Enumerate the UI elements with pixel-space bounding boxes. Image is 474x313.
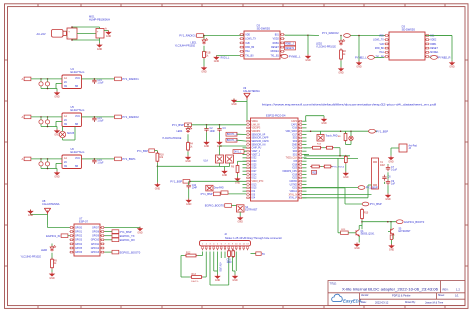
wire (426, 35, 453, 37)
wire (56, 120, 62, 122)
port EGPIO1_TX (112, 234, 135, 238)
svg-text:GND: GND (449, 66, 455, 69)
label U5 (71, 105, 85, 112)
LED LED6 (50, 245, 56, 251)
wire opto output (82, 158, 95, 160)
port port PY1_RADIO2 (344, 34, 351, 38)
svg-text:RDB1_J: RDB1_J (285, 44, 293, 46)
svg-text:SENSOR_VP: SENSOR_VP (252, 134, 266, 136)
wire xtal_n (302, 193, 371, 195)
svg-text:PY1_RADIO2: PY1_RADIO2 (322, 31, 339, 35)
svg-text:E1TRANST: E1TRANST (245, 209, 258, 212)
svg-text:LOW1_TX: LOW1_TX (373, 40, 384, 42)
wire (220, 254, 222, 258)
svg-text:IO26: IO26 (252, 168, 258, 170)
svg-text:GND: GND (338, 72, 344, 75)
wire (387, 185, 389, 193)
svg-text:PY1_RADIO2: PY1_RADIO2 (122, 115, 139, 119)
wire (224, 252, 226, 255)
svg-text:PYNB2_R: PYNB2_R (438, 56, 450, 60)
wire (302, 180, 306, 182)
svg-text:PY1_BSP: PY1_BSP (137, 150, 148, 153)
wire (338, 232, 341, 234)
svg-text:B01: B01 (275, 34, 280, 36)
svg-text:GND: GND (231, 103, 237, 106)
ground (215, 275, 221, 283)
wire opto input (31, 116, 62, 118)
ground (385, 194, 391, 202)
wire junction (94, 116, 96, 118)
capacitor C6 (92, 116, 104, 122)
svg-text:YLCGHG-PR101E: YLCGHG-PR101E (316, 45, 336, 48)
wire (358, 226, 360, 230)
svg-text:A: A (22, 115, 24, 119)
wire (99, 40, 101, 43)
wire (302, 190, 306, 192)
wire (234, 101, 247, 103)
ground (238, 216, 244, 224)
svg-text:GND: GND (389, 249, 395, 252)
svg-text:VDD3P3: VDD3P3 (252, 128, 262, 130)
svg-text:EL3H7TA-G: EL3H7TA-G (71, 70, 85, 74)
wire (219, 163, 221, 167)
wire (105, 251, 113, 253)
net label BOOT1_L (226, 138, 238, 142)
wire junction (339, 155, 341, 157)
wire (51, 269, 53, 272)
port port PYNB1_L (281, 55, 301, 59)
ground (305, 55, 311, 63)
resistor R15 (311, 146, 322, 149)
ground (231, 99, 237, 107)
capacitor C10 (187, 183, 198, 189)
switch S1 (216, 155, 224, 163)
wire (387, 172, 389, 179)
wire (55, 83, 57, 88)
capacitor C7 (386, 165, 398, 171)
svg-text:IO19: IO19 (292, 174, 298, 176)
svg-text:CALANTENNA: CALANTENNA (243, 90, 260, 93)
wire junction (94, 78, 96, 80)
wire (302, 144, 306, 146)
wire junction (40, 158, 42, 160)
svg-text:IO13: IO13 (252, 184, 258, 186)
svg-text:R13: R13 (192, 273, 197, 276)
svg-text:LOW1_TX: LOW1_TX (245, 39, 256, 41)
svg-text:GND: GND (54, 176, 60, 179)
wire (243, 157, 247, 159)
svg-text:GND: GND (97, 48, 103, 51)
svg-text:TXD0_CLK: TXD0_CLK (286, 158, 298, 160)
wire (302, 193, 306, 195)
wire (243, 190, 247, 192)
wire junction (40, 116, 42, 118)
svg-text:VDD: VDD (245, 34, 250, 36)
svg-text:1uF: 1uF (391, 183, 396, 186)
wire (220, 252, 222, 255)
wire (228, 254, 230, 285)
wire (65, 30, 68, 32)
svg-text:VDD3P3: VDD3P3 (252, 131, 262, 133)
svg-text:EL3H7TA-G: EL3H7TA-G (71, 150, 85, 154)
oscillator U10 32k (317, 135, 324, 142)
wire (243, 163, 247, 165)
svg-text:GND: GND (215, 279, 221, 282)
wire (387, 164, 389, 165)
svg-text:AC-24V: AC-24V (37, 32, 46, 36)
wire (210, 284, 229, 286)
wire (367, 185, 369, 198)
svg-text:TXL_B0: TXL_B0 (245, 55, 254, 57)
wire (285, 34, 309, 36)
wire (188, 189, 190, 199)
IC U3 ESP32-PICO-D4 (246, 118, 302, 201)
transistor Q1 (354, 230, 360, 236)
label Q2 (399, 229, 412, 234)
svg-text:A: A (22, 77, 24, 81)
capacitor C9 (92, 158, 104, 164)
wire (209, 254, 211, 285)
port port PY1_RADIO1 (179, 34, 203, 38)
wire (187, 152, 189, 156)
svg-text:EGPIO1_TX: EGPIO1_TX (120, 234, 135, 238)
svg-text:GPIO9: GPIO9 (92, 236, 100, 238)
svg-text:LED4: LED4 (177, 131, 184, 133)
svg-text:GND: GND (235, 182, 241, 185)
wire (302, 157, 306, 159)
svg-text:PY1_BSP: PY1_BSP (366, 186, 378, 190)
port port in (22, 157, 31, 161)
svg-text:2C: 2C (64, 161, 67, 164)
wire junction (47, 88, 49, 90)
wire (243, 150, 247, 152)
ground (232, 275, 238, 283)
wire (361, 220, 363, 229)
wire (56, 89, 58, 92)
wire (358, 60, 360, 61)
wire (55, 163, 57, 168)
wire bottom rail (72, 39, 100, 41)
svg-text:VLB: VLB (245, 43, 250, 45)
svg-text:PY1_BSP: PY1_BSP (170, 180, 182, 184)
capacitor C9 (386, 179, 396, 185)
svg-text:GND: GND (305, 59, 311, 62)
wire (345, 203, 362, 205)
resistor R17 (344, 155, 347, 164)
wire (302, 163, 306, 165)
resistor R12 (184, 251, 197, 257)
svg-text:104F: 104F (192, 187, 198, 190)
ground (97, 43, 103, 51)
svg-text:PY1_BSP: PY1_BSP (370, 202, 382, 206)
svg-text:YLC3UH4-PR101E: YLC3UH4-PR101E (175, 44, 196, 47)
svg-text:Jason.M & Tree: Jason.M & Tree (425, 300, 444, 304)
svg-text:GPIO11: GPIO11 (91, 244, 100, 246)
port EGPIO1_BOOT0 (112, 250, 141, 254)
wire (56, 162, 62, 164)
svg-text:HA1: HA1 (245, 50, 250, 53)
svg-text:EL3H7TA-G: EL3H7TA-G (71, 108, 85, 112)
svg-text:GND: GND (106, 35, 112, 38)
label MG1 (89, 15, 110, 22)
label U7 (79, 217, 88, 224)
wire (307, 35, 309, 54)
svg-text:6B: 6B (75, 165, 78, 168)
svg-text:GND: GND (388, 160, 394, 163)
transistor Q2 (388, 228, 394, 234)
svg-text:CMD: CMD (292, 144, 297, 146)
svg-text:GND: GND (238, 221, 244, 224)
capacitor C7 (39, 159, 43, 169)
wire rail (304, 155, 350, 157)
wire (202, 254, 204, 256)
svg-text:GPIO12: GPIO12 (91, 248, 100, 250)
wire (302, 147, 306, 149)
wire (214, 270, 218, 272)
svg-text:1/1: 1/1 (455, 294, 459, 298)
svg-text:RESET: RESET (430, 48, 438, 50)
label U6 (71, 147, 85, 154)
svg-text:CALANTENNA: CALANTENNA (42, 202, 60, 206)
wire bsp to esp32 (191, 124, 246, 126)
svg-text:2C: 2C (64, 119, 67, 122)
ground (388, 156, 394, 164)
wire (62, 138, 64, 140)
svg-text:IO18: IO18 (292, 164, 298, 166)
resistor R6 (231, 164, 239, 174)
wire (237, 133, 246, 135)
net label PY1_BSP (149, 149, 155, 152)
svg-text:IO25: IO25 (252, 164, 258, 166)
svg-text:40M: 40M (380, 164, 385, 167)
svg-text:VCC: VCC (75, 157, 80, 160)
svg-text:SD1: SD1 (293, 154, 298, 156)
svg-text:YLCGHG-PR101E: YLCGHG-PR101E (162, 138, 182, 140)
varistor RV1 (59, 131, 65, 137)
wire (99, 27, 101, 29)
ground (155, 183, 161, 191)
wire (41, 126, 57, 128)
wire (105, 239, 113, 241)
wire (156, 166, 158, 183)
wire (180, 256, 182, 278)
wire rail (304, 157, 358, 159)
ground (222, 170, 228, 178)
resistor R23 base (341, 231, 349, 235)
svg-text:IO23: IO23 (292, 168, 298, 170)
svg-text:Drawn By:: Drawn By: (405, 301, 416, 304)
wire junction (206, 124, 208, 126)
ground (201, 66, 207, 74)
port port in (22, 77, 31, 81)
svg-text:0.1uF: 0.1uF (391, 169, 398, 172)
svg-text:EGPIO1_BOOT0: EGPIO1_BOOT0 (404, 220, 424, 224)
wire (31, 214, 48, 216)
svg-text:Vendor:: Vendor: (361, 294, 369, 297)
svg-text:CAP1: CAP1 (291, 123, 298, 126)
wire (237, 139, 246, 142)
wire xtal_p (302, 197, 368, 199)
resistor R10 (361, 208, 364, 220)
svg-text:SD-DW05S: SD-DW05S (402, 27, 416, 31)
svg-text:PY0_TX/C4: PY0_TX/C4 (333, 167, 345, 169)
resistor R22 (232, 249, 235, 258)
wire (51, 244, 53, 247)
wire (302, 127, 306, 129)
net label RESET1 (285, 46, 296, 50)
svg-text:BOOT1_L: BOOT1_L (227, 140, 238, 142)
capacitor C2 (45, 79, 49, 89)
svg-text:3N: 3N (64, 165, 67, 168)
svg-text:EGPIO1_BOOT0: EGPIO1_BOOT0 (120, 250, 141, 254)
wire (305, 116, 307, 122)
capacitor C2 (204, 126, 215, 132)
svg-text:ESP32-PICO-D4: ESP32-PICO-D4 (266, 114, 286, 118)
svg-text:RDB1: RDB1 (273, 43, 280, 45)
svg-text:PY1_RADIO1: PY1_RADIO1 (179, 34, 196, 38)
wire (51, 253, 53, 259)
svg-text:Touch_PAD: Touch_PAD (326, 135, 338, 138)
wire junction (47, 168, 49, 170)
net label net R20 (312, 170, 318, 174)
wire to PY1_RADIO2 (308, 34, 319, 36)
svg-text:1A: 1A (64, 115, 67, 118)
date row (361, 300, 444, 304)
wire (302, 183, 306, 185)
svg-text:REV:: REV: (443, 287, 449, 291)
svg-text:GPIO1: GPIO1 (75, 232, 83, 234)
svg-text:VCC: VCC (75, 77, 80, 80)
svg-text:PY1_BSP: PY1_BSP (120, 230, 132, 234)
svg-text:S8050_Q1N1: S8050_Q1N1 (361, 234, 376, 236)
svg-text:IO21: IO21 (292, 188, 298, 190)
wire junction (390, 221, 392, 223)
wire (344, 188, 346, 204)
module U7 ESP-07 (70, 224, 105, 256)
LED LED1 (202, 38, 208, 44)
svg-text:IO17: IO17 (292, 134, 298, 136)
port port PY1_BSP a (172, 123, 192, 127)
wire to port (94, 158, 114, 160)
svg-text:-: - (68, 35, 69, 39)
svg-text:GPIO7: GPIO7 (92, 227, 100, 229)
wire (243, 160, 247, 162)
ground (54, 129, 60, 137)
wire opto output (82, 116, 95, 118)
wire (155, 150, 158, 152)
wire (243, 167, 247, 169)
svg-text:RESET1: RESET1 (285, 48, 295, 50)
wire (156, 163, 158, 167)
wire (243, 173, 247, 175)
svg-text:GPIO4: GPIO4 (75, 244, 83, 246)
wire (205, 252, 207, 255)
wire (220, 193, 246, 195)
svg-text:EGPIO_BOOT0: EGPIO_BOOT0 (205, 204, 225, 208)
wire (47, 168, 49, 170)
svg-text:VCC: VCC (75, 115, 80, 118)
svg-text:GND: GND (214, 60, 220, 63)
wire (68, 235, 70, 237)
wire (105, 227, 141, 229)
wire junction (350, 130, 352, 132)
svg-text:PY1_BSP: PY1_BSP (376, 129, 388, 133)
ground (214, 56, 220, 64)
svg-text:VDET_2: VDET_2 (252, 154, 261, 156)
wire (232, 252, 234, 255)
ground (217, 141, 223, 149)
svg-text:GND: GND (28, 214, 34, 217)
net label DKI1_L (233, 150, 244, 154)
svg-text:GND: GND (385, 198, 391, 201)
ground (338, 67, 344, 75)
wire (302, 120, 306, 122)
wire (213, 254, 215, 271)
wire to port (94, 78, 114, 80)
port EGPIO1_RX (112, 238, 135, 242)
wire (202, 252, 204, 255)
wire (345, 131, 347, 133)
wire (47, 126, 49, 128)
svg-text:DKI1_L: DKI1_L (234, 152, 242, 154)
label IC3 (257, 23, 271, 30)
label J1 value (37, 32, 46, 36)
wire (235, 252, 237, 255)
wire (213, 252, 215, 255)
svg-text:GND: GND (321, 122, 327, 125)
sheet row (438, 294, 459, 298)
wire (304, 147, 311, 149)
opto-isolator U5 (62, 113, 82, 127)
resistor R8 (344, 132, 347, 142)
wire (99, 38, 101, 40)
wire (139, 226, 141, 229)
wire (358, 236, 360, 243)
label U9 (243, 87, 260, 93)
wire junction (307, 34, 309, 36)
wire (302, 137, 306, 139)
wire (62, 126, 64, 131)
wire (203, 276, 206, 278)
wire (30, 210, 32, 215)
wire (322, 147, 325, 149)
wire (48, 227, 70, 229)
svg-text:2022-03-12: 2022-03-12 (375, 300, 389, 304)
port port PY1_BSP d (358, 186, 378, 190)
wire (359, 225, 362, 227)
wire (105, 231, 113, 233)
port port EGPIO1_BOOT0 (396, 220, 403, 224)
svg-text:PY1_RADIO1: PY1_RADIO1 (122, 77, 139, 81)
wire antenna to LNA (246, 102, 248, 121)
IC IC3 SD-DW05S (240, 31, 285, 59)
wire junction (387, 221, 389, 223)
svg-text:VDD2: VDD2 (430, 40, 437, 42)
svg-text:PYNB1_L: PYNB1_L (289, 55, 301, 59)
svg-text:PY1_BSP: PY1_BSP (201, 192, 213, 196)
oscillator U11 (206, 185, 213, 191)
svg-text:IO14: IO14 (252, 174, 258, 176)
wire pullup rail (157, 165, 219, 167)
net label RDB1_J (285, 42, 296, 46)
wire (302, 187, 345, 189)
wire (217, 254, 219, 275)
svg-text:VLB: VLB (379, 44, 384, 46)
wire (384, 182, 386, 184)
capacitor C3 (92, 78, 104, 84)
svg-text:IO15: IO15 (252, 188, 258, 190)
svg-text:GND: GND (232, 279, 238, 282)
